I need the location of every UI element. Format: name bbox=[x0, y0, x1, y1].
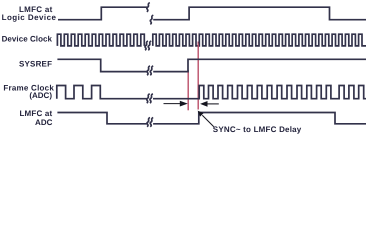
svg-text:ADC: ADC bbox=[35, 118, 53, 127]
label: Frame Clock (ADC) bbox=[3, 84, 54, 100]
node: break squiggle row5 b bbox=[150, 118, 153, 127]
svg-text:(ADC): (ADC) bbox=[29, 91, 52, 100]
wire: LMFC at ADC waveform (left of break) bbox=[57, 113, 146, 124]
node: break squiggle row2 b bbox=[148, 41, 151, 50]
svg-text:SYNC~ to LMFC Delay: SYNC~ to LMFC Delay bbox=[213, 125, 302, 134]
svg-text:Device Clock: Device Clock bbox=[2, 35, 53, 44]
label: LMFC at Logic Device bbox=[2, 5, 57, 22]
node: break squiggle row2 a bbox=[145, 41, 148, 50]
arrow: right-pointing toward red line 1 bbox=[164, 101, 188, 107]
wire: LMFC at Logic Device waveform (right of break) bbox=[153, 7, 366, 20]
arrow: leader line to SYNC~ to LMFC Delay label bbox=[198, 111, 214, 127]
arrow: left-pointing toward red line 2 bbox=[200, 101, 219, 107]
node: break squiggle row3 b bbox=[150, 66, 153, 75]
wire: SYSREF waveform (right of break) bbox=[153, 59, 366, 71]
wire: LMFC at ADC waveform (right of break) bbox=[153, 113, 366, 124]
red cursor line 2 (at LMFC rise) bbox=[197, 42, 199, 110]
node: break squiggle row3 a bbox=[147, 66, 150, 75]
wire: Device Clock waveform (right of break) bbox=[153, 34, 366, 46]
red cursor line 1 (at SYSREF capture edge) bbox=[187, 70, 189, 110]
svg-text:Logic Device: Logic Device bbox=[2, 13, 57, 22]
wire: Frame Clock ADC waveform (right of break) bbox=[153, 86, 366, 99]
node: break squiggle row4 a bbox=[147, 94, 150, 103]
node: break squiggle row4 b bbox=[150, 94, 153, 103]
wire: Device Clock waveform (left of break) bbox=[57, 34, 144, 46]
JESD204B SYNC~ to LMFC delay timing diagram bbox=[0, 0, 368, 137]
node: break squiggle row1 high bbox=[147, 3, 150, 12]
wire: Frame Clock ADC waveform (left of break) bbox=[57, 86, 147, 99]
svg-text:SYSREF: SYSREF bbox=[19, 59, 52, 68]
wire: LMFC at Logic Device waveform (left of break) bbox=[58, 7, 147, 20]
node: break squiggle row5 a bbox=[147, 118, 150, 127]
node: break squiggle row1 low bbox=[150, 15, 153, 24]
wire: SYSREF waveform (left of break) bbox=[57, 59, 147, 71]
red cursor line 2 overlay across device clock low line bbox=[197, 44, 199, 48]
svg-text:LMFC at: LMFC at bbox=[19, 109, 52, 118]
label: LMFC at ADC bbox=[19, 109, 52, 127]
